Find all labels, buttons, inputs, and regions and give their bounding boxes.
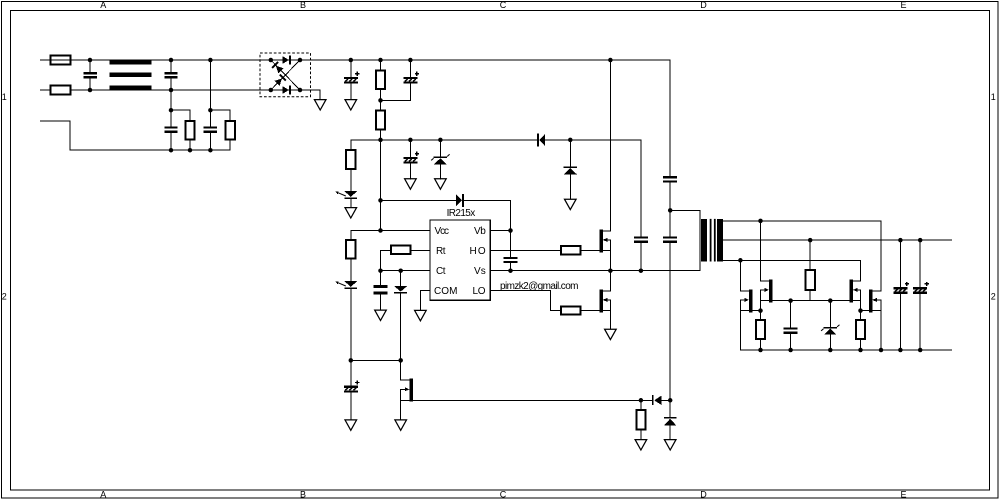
node rail Q6: [879, 348, 884, 353]
bridge diagonal wire TL-BR: [271, 60, 300, 90]
node bridge minus: [298, 88, 303, 93]
ground C16: [345, 420, 357, 430]
node bootstrap tee: [378, 198, 383, 203]
capacitor CX1: [84, 60, 97, 90]
svg-text:HO: HO: [470, 246, 486, 257]
ground Q7 source: [395, 420, 407, 430]
node Vcc divider: [378, 228, 383, 233]
node L-CX1: [88, 58, 93, 63]
capacitor C6 electrolytic: [381, 60, 420, 100]
svg-text:Ct: Ct: [436, 266, 446, 277]
node rail R9: [758, 348, 763, 353]
node y140 divider: [378, 138, 383, 143]
transformer T1 primary winding: [701, 219, 707, 262]
node rail Q1 drain: [608, 58, 613, 63]
transistor Q2 low-side MOSFET: [599, 271, 610, 330]
diode D8 bootstrap: [456, 194, 464, 207]
node y140 C7: [408, 138, 413, 143]
resistor R2 divider lower: [376, 110, 385, 139]
svg-text:C: C: [500, 0, 507, 10]
node rail C5: [349, 58, 354, 63]
node sec top Q4: [758, 219, 763, 224]
svg-text:D: D: [700, 0, 707, 10]
op-amp U1 IC body: [430, 220, 490, 300]
wire LO net: [490, 291, 599, 311]
capacitor C12 half-bridge lower: [663, 210, 677, 400]
bridge diode D2 bottom: [282, 86, 291, 95]
wire secondary bottom tap: [723, 260, 861, 281]
ground C8: [375, 310, 387, 320]
node divider midpoint: [378, 98, 383, 103]
ground bridge minus: [314, 100, 326, 110]
svg-text:Vcc: Vcc: [435, 226, 450, 237]
ground C7: [405, 179, 417, 189]
resistor RY1: [171, 110, 195, 150]
bridge diagonal wire BL-TR: [271, 60, 300, 90]
node N-CX1: [88, 88, 93, 93]
diode D5 feed: [537, 134, 545, 147]
ground R11: [635, 440, 647, 450]
bridge diode D3 upper diagonal: [272, 62, 283, 73]
wire Vcc pin net: [351, 231, 430, 240]
node centertap R8: [808, 238, 813, 243]
resistor R1 divider upper: [376, 60, 385, 110]
node C16 tee: [349, 358, 354, 363]
node centertap C14: [918, 238, 923, 243]
fuse F1: [51, 55, 71, 64]
resistor R8 pull-up: [806, 240, 815, 301]
wire feedback y360: [351, 359, 401, 361]
node N-CX2: [169, 88, 174, 93]
capacitor C5 bulk electrolytic: [344, 60, 360, 100]
resistor R4 LED chain: [346, 240, 355, 281]
transistor Q7 small MOSFET: [401, 360, 413, 420]
resistor R10 gate right: [856, 311, 865, 350]
capacitor C15: [784, 301, 798, 350]
wire drive rail y400: [413, 399, 670, 401]
node rail divider: [378, 58, 383, 63]
svg-text:COM: COM: [434, 286, 458, 297]
wire AC line top: [41, 59, 271, 61]
diode D12: [664, 400, 677, 439]
node earth CY1: [169, 148, 174, 153]
wire secondary center tap output plus: [723, 239, 952, 241]
transformer T1 core: [711, 219, 715, 262]
bridge diode D4 lower diagonal: [275, 75, 286, 86]
node y400 R11: [639, 398, 644, 403]
ground D12: [664, 440, 676, 450]
capacitor C16 electrolytic: [344, 360, 360, 420]
diode D6: [563, 140, 577, 199]
node Ct cap: [378, 268, 383, 273]
node cross C15: [788, 298, 793, 303]
ground COM: [415, 310, 427, 320]
wire earth bus: [41, 121, 231, 150]
node earth RY1: [188, 148, 193, 153]
svg-text:B: B: [300, 489, 306, 499]
svg-text:A: A: [100, 489, 106, 499]
svg-text:LO: LO: [473, 286, 486, 297]
capacitor C14 output electrolytic: [913, 240, 929, 350]
ground Q2 source: [605, 329, 617, 339]
bridge diode D1 top: [282, 56, 291, 65]
LED D7: [335, 191, 357, 207]
wire HO net: [490, 249, 599, 251]
svg-text:E: E: [900, 489, 906, 499]
node centertap C13: [898, 238, 903, 243]
node CY1 tap: [169, 108, 174, 113]
svg-text:A: A: [100, 0, 106, 10]
diode D10: [394, 271, 407, 361]
node Ct diode: [398, 268, 403, 273]
node earth CY2: [208, 148, 213, 153]
node bridge plus: [298, 58, 303, 63]
svg-text:B: B: [300, 0, 306, 10]
wire COM to ground: [420, 291, 430, 311]
svg-text:pimzk2@gmail.com: pimzk2@gmail.com: [500, 281, 579, 292]
transistor Q1 high-side MOSFET: [599, 60, 610, 271]
resistor R7 gate low: [561, 307, 580, 315]
capacitor C13 output electrolytic: [893, 240, 909, 350]
resistor R11: [636, 400, 645, 439]
node y400 D12: [668, 398, 673, 403]
node sec bottom Q3: [738, 258, 743, 263]
resistor R3 startup: [346, 140, 355, 191]
svg-text:1: 1: [2, 92, 7, 102]
common-mode choke L1: [110, 60, 152, 90]
transformer T1 secondary winding: [717, 219, 723, 262]
wire secondary top tap: [723, 221, 881, 291]
node Vs C11: [639, 268, 644, 273]
capacitor C8 Ct: [374, 271, 388, 310]
node Vs half-bridge: [608, 268, 613, 273]
transistor Q6 sync rectifier right outer: [861, 289, 882, 350]
resistor R5 Rt: [391, 246, 411, 254]
zener Z1 Vcc clamp: [431, 140, 449, 179]
node switch-transformer: [668, 208, 673, 213]
wire primary top: [670, 210, 700, 270]
node gate cross right: [858, 308, 863, 313]
svg-text:1: 1: [991, 92, 996, 102]
wire AC neutral bottom: [41, 89, 271, 91]
zener Z2: [821, 301, 839, 350]
bridge bottom edge wire: [271, 89, 300, 91]
capacitor CY1: [164, 90, 177, 150]
wire bridge minus to ground: [300, 90, 320, 100]
node rail R10: [858, 348, 863, 353]
ground D6: [565, 199, 577, 209]
bridge rectifier B1 dashed box: [260, 53, 311, 97]
wire output return rail: [740, 349, 951, 351]
wire Ct net: [381, 270, 431, 272]
svg-text:D: D: [700, 489, 707, 499]
wire Vb net: [430, 230, 511, 232]
node rail C6: [408, 58, 413, 63]
capacitor CX2: [164, 60, 177, 90]
capacitor C9 bootstrap: [504, 231, 518, 271]
resistor R9 gate left: [756, 311, 765, 350]
wire Vcc supply net y140: [351, 139, 641, 141]
svg-text:2: 2: [991, 292, 996, 302]
node CY2 tap: [208, 108, 213, 113]
node y140 D6: [568, 138, 573, 143]
capacitor C10 half-bridge upper: [663, 60, 677, 210]
wire Rt net: [381, 250, 431, 270]
svg-text:Rt: Rt: [436, 246, 446, 257]
ground D7: [345, 208, 357, 218]
node Vb: [508, 228, 513, 233]
svg-text:Vs: Vs: [474, 266, 486, 277]
svg-text:C: C: [500, 489, 507, 499]
wire gate cross net: [791, 300, 850, 302]
transistor Q5 sync rectifier right inner: [850, 279, 861, 310]
node gate cross left: [758, 308, 763, 313]
node rail Z2: [828, 348, 833, 353]
resistor RY2: [210, 110, 234, 150]
wire divider to Vcc vertical: [380, 140, 382, 231]
node bridge AC bottom: [269, 88, 274, 93]
svg-text:IR215x: IR215x: [447, 208, 476, 219]
capacitor C7 Vcc electrolytic: [403, 140, 419, 179]
bridge top edge wire: [271, 59, 300, 61]
diode D11: [652, 395, 662, 405]
wire DC+ rail y60: [300, 59, 670, 61]
node L-CY2: [208, 58, 213, 63]
node rail C14: [918, 348, 923, 353]
node rail C13: [898, 348, 903, 353]
node y140 Z1: [438, 138, 443, 143]
LED D9: [335, 281, 357, 360]
node Q7 drain tee: [398, 358, 403, 363]
transistor Q3 sync rectifier left outer: [740, 260, 760, 350]
transistor Q4 sync rectifier left inner: [761, 221, 791, 311]
node bridge AC top: [269, 58, 274, 63]
capacitor C11 snubber: [634, 140, 648, 271]
node rail C15: [788, 348, 793, 353]
capacitor CY2: [204, 60, 217, 150]
ground Z1: [435, 179, 447, 189]
svg-text:E: E: [900, 0, 906, 10]
svg-text:2: 2: [2, 292, 7, 302]
svg-text:Vb: Vb: [474, 226, 486, 237]
resistor R6 gate high: [561, 246, 580, 254]
ground C5: [345, 100, 357, 110]
node cross Z2: [828, 298, 833, 303]
node L-CX2: [169, 58, 174, 63]
node Vs bootstrap: [508, 268, 513, 273]
wire Vs rail: [490, 270, 700, 272]
wire bootstrap net y200: [381, 200, 511, 230]
fuse F2: [51, 85, 71, 94]
